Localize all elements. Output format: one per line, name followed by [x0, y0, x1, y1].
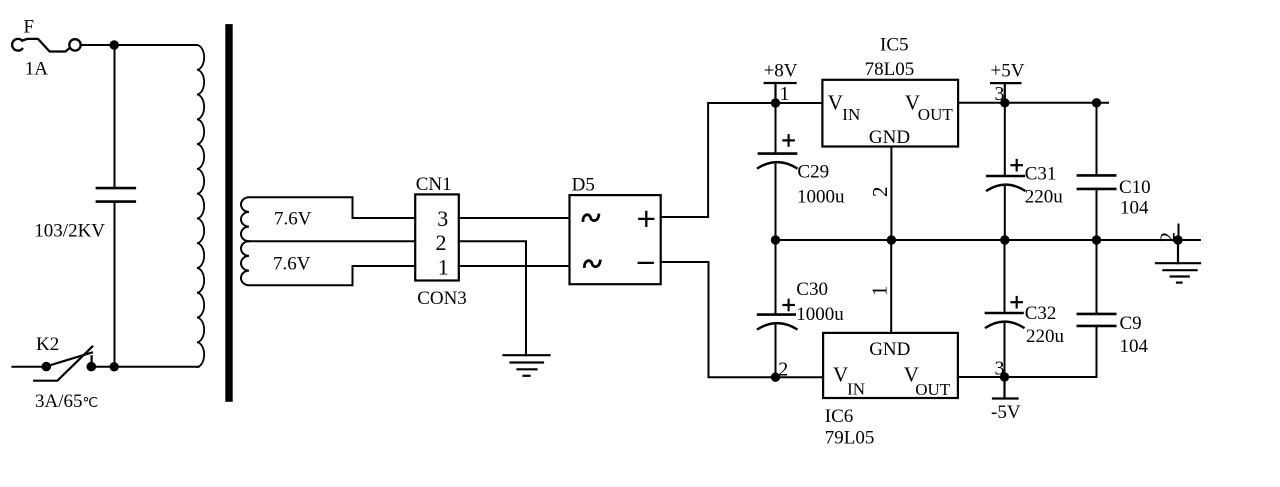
wire IC6 output rail: [958, 376, 1097, 378]
wire D5 minus output: [661, 262, 823, 377]
AC symbol upper of D5: [583, 215, 599, 221]
wire CN1 pin3 to D5: [459, 217, 570, 219]
wire bottom-left stub: [12, 366, 46, 368]
svg-text:C10: C10: [1119, 177, 1151, 198]
regulator IC5 body: [822, 80, 958, 147]
wire secondary pin1: [353, 265, 416, 267]
junction dot IC5 GND rail: [887, 235, 896, 244]
junction dot C30 bottom rail: [771, 373, 780, 382]
capacitor C30: [758, 240, 797, 377]
svg-text:2: 2: [436, 230, 447, 255]
transformer secondary winding upper: [241, 197, 353, 241]
svg-text:GND: GND: [869, 127, 910, 148]
wire IC5 output rail: [958, 102, 1108, 104]
transformer primary winding: [197, 45, 204, 367]
wire middle ground rail: [776, 239, 1201, 241]
svg-text:1000u: 1000u: [797, 187, 845, 208]
svg-text:103/2KV: 103/2KV: [34, 221, 105, 242]
capacitor C32: [986, 240, 1024, 377]
capacitor C10: [1078, 103, 1115, 240]
svg-text:3: 3: [995, 357, 1005, 379]
junction dot top-left: [110, 40, 119, 49]
junction dot C10 top: [1092, 98, 1101, 107]
wire D5 plus output: [661, 103, 823, 217]
svg-text:220u: 220u: [1026, 326, 1065, 347]
wire CN1 pin2 right: [459, 241, 526, 355]
svg-text:OUT: OUT: [915, 380, 951, 399]
svg-text:IC6: IC6: [825, 406, 854, 427]
wire IC6 GND up: [890, 240, 892, 333]
node -5V flag: [993, 377, 1018, 399]
wire IC5 GND down: [890, 147, 892, 241]
junction dot -5V node: [1000, 372, 1009, 381]
ground symbol right: [1156, 240, 1200, 283]
svg-text:OUT: OUT: [918, 105, 954, 124]
svg-text:V: V: [828, 91, 843, 115]
svg-text:-5V: -5V: [991, 402, 1021, 423]
svg-text:7.6V: 7.6V: [273, 253, 311, 274]
node +5V flag: [991, 83, 1020, 103]
node +8V flag: [765, 83, 796, 103]
capacitor 103/2KV: [97, 188, 135, 202]
svg-text:F: F: [24, 17, 35, 38]
wire CN1 pin1 to D5: [459, 265, 570, 267]
svg-text:2: 2: [868, 187, 892, 198]
wire secondary pin3: [353, 217, 416, 219]
junction dot +5V node: [1000, 98, 1009, 107]
wire capacitor column upper: [114, 45, 116, 188]
regulator IC6 body: [823, 333, 958, 398]
AC symbol lower of D5: [584, 261, 600, 267]
svg-text:1: 1: [780, 83, 790, 105]
svg-text:104: 104: [1120, 336, 1149, 357]
svg-text:+8V: +8V: [764, 61, 798, 82]
junction dot C10 bottom rail: [1092, 235, 1101, 244]
ground symbol left: [504, 355, 550, 376]
svg-text:220u: 220u: [1025, 186, 1064, 207]
svg-text:D5: D5: [572, 175, 595, 196]
wire ground stub up: [1178, 225, 1180, 241]
svg-text:3A/65℃: 3A/65℃: [35, 391, 98, 412]
svg-text:78L05: 78L05: [865, 59, 915, 80]
svg-text:1: 1: [438, 255, 449, 280]
svg-text:1: 1: [868, 286, 892, 297]
svg-text:C29: C29: [797, 162, 829, 183]
transformer core: [225, 24, 232, 402]
junction dot ground rail right: [1173, 235, 1182, 244]
svg-text:3: 3: [437, 206, 448, 231]
wire secondary center tap: [249, 240, 415, 242]
transformer secondary winding lower: [241, 241, 353, 285]
junction dot C29 rail: [771, 235, 780, 244]
svg-text:GND: GND: [869, 339, 910, 360]
relay contact K2: [34, 347, 96, 381]
junction dot bottom-left: [110, 362, 119, 371]
wire bottom-left to transformer: [91, 366, 198, 368]
minus terminal of D5: [639, 262, 653, 264]
svg-text:CON3: CON3: [417, 288, 467, 309]
svg-text:IC5: IC5: [880, 35, 909, 56]
fuse F symbol: [12, 39, 81, 52]
svg-text:C32: C32: [1025, 303, 1057, 324]
svg-text:7.6V: 7.6V: [274, 208, 312, 229]
svg-text:1A: 1A: [25, 59, 49, 80]
svg-text:C30: C30: [796, 279, 828, 300]
svg-text:79L05: 79L05: [825, 428, 875, 449]
svg-text:C31: C31: [1025, 163, 1057, 184]
svg-text:IN: IN: [842, 105, 860, 124]
svg-text:1000u: 1000u: [796, 304, 844, 325]
junction dot C31 rail: [1000, 235, 1009, 244]
junction dot +8V node: [771, 98, 780, 107]
svg-text:CN1: CN1: [416, 174, 452, 195]
svg-text:104: 104: [1120, 197, 1149, 218]
plus terminal of D5: [639, 212, 653, 226]
svg-text:+5V: +5V: [991, 61, 1025, 82]
svg-text:2: 2: [1156, 232, 1180, 243]
capacitor C9: [1078, 240, 1115, 377]
svg-text:K2: K2: [36, 334, 59, 355]
connector CN1 body: [415, 194, 459, 280]
capacitor C29: [758, 103, 797, 240]
svg-text:2: 2: [778, 358, 788, 380]
wire capacitor column lower: [114, 202, 116, 367]
svg-text:IN: IN: [847, 380, 865, 399]
svg-text:V: V: [833, 362, 848, 386]
svg-text:C9: C9: [1120, 313, 1142, 334]
bridge rectifier D5 body: [570, 195, 661, 284]
capacitor C31: [987, 103, 1025, 240]
wire top-left horizontal: [81, 44, 197, 46]
